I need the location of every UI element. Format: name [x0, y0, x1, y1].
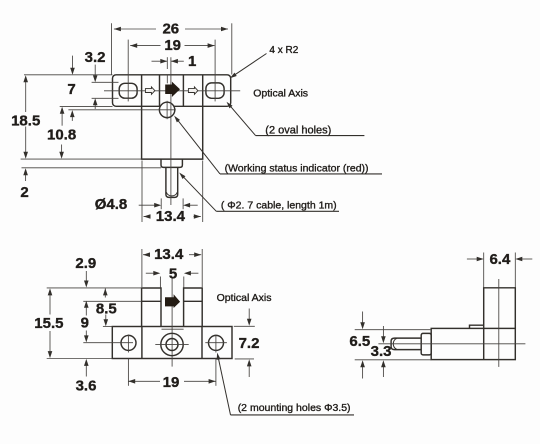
front view: left open light arrow — [145, 87, 155, 95]
bottom view: optical axis line across right prong — [184, 300, 203, 302]
leader line for cable label to cable — [181, 174, 217, 211]
side view: cable bushing — [421, 333, 431, 355]
dimension 6.5 bottom reference line (body bottom extended) — [355, 359, 432, 361]
front view: slot centerline tick above bar — [166, 57, 168, 69]
svg-text:3.2: 3.2 — [85, 49, 106, 66]
dimension 19 line left segment — [130, 45, 160, 47]
dimension 8.5 up arrow to prong top line — [104, 288, 106, 297]
dimension 19 line right segment — [185, 45, 215, 47]
svg-text:7.2: 7.2 — [239, 335, 260, 352]
svg-text:1: 1 — [188, 53, 196, 70]
dimension 10.8 down arrow to body bottom — [61, 145, 63, 154]
dimension 19 right arrowhead — [208, 43, 215, 48]
bottom view: plate internal divider left — [141, 327, 143, 359]
svg-text:(2 mounting holes Φ3.5): (2 mounting holes Φ3.5) — [238, 402, 351, 414]
dimension 19 left extension line — [127, 359, 129, 386]
svg-text:10.8: 10.8 — [47, 126, 76, 143]
front view: cable with rounded end — [166, 167, 178, 197]
dimension 13.4 (bottom) line right segment — [189, 254, 201, 256]
dimension 19 line left segment — [128, 380, 160, 382]
dimension 13.4 left arrowhead — [144, 214, 151, 219]
bottom view: base plate outline — [112, 327, 232, 359]
dimension 1 left line with inward arrow — [152, 60, 168, 62]
underline for working status indicator — [220, 173, 382, 175]
svg-text:6.5: 6.5 — [349, 333, 370, 350]
dimension 3.2/7 arrow to oval top — [94, 65, 96, 77]
svg-text:13.4: 13.4 — [154, 246, 184, 263]
bottom view: black optical axis arrow — [165, 294, 180, 308]
svg-text:3.6: 3.6 — [76, 378, 97, 395]
dimension 13.4 (bottom) left arrowhead — [143, 252, 150, 257]
side view: tower left edge through body — [483, 328, 485, 359]
bottom view: right hole vertical crosshair — [215, 335, 217, 353]
svg-text:26: 26 — [162, 21, 179, 38]
dimension 13.4 right arrowhead — [194, 214, 201, 219]
front view: slot centerline segment inside bar — [166, 75, 168, 84]
underline for cable label — [216, 210, 339, 212]
leader line for mounting holes label to right hole — [218, 357, 231, 415]
dimension 2.9 down arrow to prong top line — [85, 271, 87, 283]
dimension 13.4 line right segment — [194, 216, 201, 218]
dimension 3.3 up arrow to body bottom — [382, 366, 384, 377]
dimension 13.4 right extension line — [202, 161, 204, 223]
dimension Ø4.8 left line with arrowhead — [139, 204, 156, 206]
dimension 6.4 left line with inward arrow — [467, 258, 478, 260]
dimension 7.2 bottom tick line at plate bottom level — [235, 358, 254, 360]
bottom view: center boss outer circle — [161, 333, 183, 355]
dimension 6.4 left extension line — [483, 253, 485, 288]
svg-text:Optical Axis: Optical Axis — [217, 292, 272, 304]
dimension 6.5 up arrow to body bottom — [362, 366, 364, 379]
front view: body vertical centerline — [170, 57, 172, 205]
dimension 15.5 line upper segment with up arrow — [49, 294, 51, 315]
svg-text:(Working status indicator (red: (Working status indicator (red)) — [225, 163, 369, 175]
dimension 7.2 up arrow to plate bottom — [248, 365, 250, 378]
optical axis down arrow to plate top (7.2 upper) — [248, 309, 250, 321]
leader line for working status indicator to circle — [176, 118, 220, 174]
underline for mounting holes label — [231, 414, 355, 416]
dimension 1 right line with inward arrow — [171, 60, 184, 62]
dimension 19 left arrowhead — [130, 43, 137, 48]
svg-text:5: 5 — [169, 266, 177, 283]
dimension 2 up arrow — [25, 174, 27, 182]
svg-text:9: 9 — [81, 315, 89, 332]
bottom view: plate internal divider right — [201, 327, 203, 359]
bottom view: center boss inner circle — [166, 339, 178, 351]
side view: indicator notch on body top — [470, 325, 484, 328]
dimension Ø4.8 right line with arrowhead — [189, 204, 198, 206]
dimension Ø4.8 right extension line — [182, 198, 184, 209]
svg-text:18.5: 18.5 — [11, 113, 40, 130]
front view: right oval vertical centerline / 19-dim extension — [214, 40, 216, 102]
dimension 13.4 (bottom) right arrowhead — [194, 252, 201, 257]
bottom view: left mounting hole — [121, 335, 136, 350]
svg-text:2: 2 — [20, 184, 28, 201]
dimension 9 up arrow to optical axis line — [85, 306, 87, 316]
dimension 19 (bottom) left arrowhead — [128, 379, 135, 384]
side view: horizontal body outline — [431, 328, 515, 359]
dimension 10.8 up arrow to ear bottom line — [61, 112, 63, 126]
dimension 7 oval bottom extension line — [92, 97, 119, 99]
front view: indicator center horizontal line / 10.8-dim reference — [68, 109, 175, 111]
front view: center body outline below bar — [142, 106, 203, 159]
front view: slot right wall line — [182, 75, 184, 107]
dimension 2 step bottom reference line — [22, 167, 162, 169]
dimension 26 right extension line — [231, 23, 233, 74]
bottom view: right hole horizontal crosshair — [205, 342, 227, 344]
front view: left oval vertical centerline / 19-dim extension — [127, 40, 129, 102]
dimension 7 up arrow at oval bottom — [94, 104, 96, 109]
leader line for (2 oval holes) to right oval — [228, 103, 256, 135]
svg-text:( Φ2. 7 cable, length 1m): ( Φ2. 7 cable, length 1m) — [221, 200, 337, 212]
dimension 26 left extension line — [111, 23, 113, 74]
svg-text:13.4: 13.4 — [156, 208, 186, 225]
svg-text:2.9: 2.9 — [75, 255, 96, 272]
dimension 7.2 top tick line at plate top level — [234, 325, 255, 327]
front view: cable end ellipse arc — [166, 192, 177, 196]
dimension 26 line right segment — [185, 28, 228, 30]
dimension 13.4 (bottom) right extension — [201, 249, 203, 287]
dimension 13.4 (bottom) left extension — [141, 249, 143, 287]
svg-text:3.3: 3.3 — [371, 343, 392, 360]
dimension 3.2 arrow to bar top — [72, 56, 74, 70]
dimension 5 right line with inward arrow — [190, 272, 198, 274]
front view: optical axis horizontal centerline — [104, 90, 240, 92]
bottom view: left prong outline — [142, 288, 161, 327]
dimension 18.5 line lower segment with down arrowhead — [25, 127, 27, 154]
side view: vertical tower outline — [484, 288, 516, 329]
dimension 5 right extension tick — [183, 277, 185, 288]
side view: cable with rounded end — [391, 338, 421, 350]
svg-text:6.4: 6.4 — [489, 251, 511, 268]
dimension 5 left line with inward arrow — [146, 272, 154, 274]
front view: left ear-body divider line — [141, 75, 143, 107]
dimension 15.5 bottom reference line (plate bottom extended) — [47, 358, 113, 360]
dimension 13.4 (bottom) line left segment — [143, 254, 148, 256]
bottom view: optical axis line across left prong — [142, 300, 161, 302]
svg-text:7: 7 — [67, 81, 75, 98]
dimension 7 oval top extension line — [92, 81, 119, 83]
dimension 8.5 plate top extension line — [103, 325, 112, 327]
dimension 6.4 right line with inward arrow — [522, 258, 533, 260]
front view: right oval mounting hole — [206, 83, 224, 98]
dimension 6.5 top reference line (body top extended) — [355, 329, 432, 331]
svg-text:15.5: 15.5 — [34, 315, 63, 332]
svg-text:4 x R2: 4 x R2 — [269, 45, 298, 56]
svg-text:19: 19 — [164, 37, 181, 54]
dimension 26 right arrowhead — [221, 27, 228, 32]
dimension 19 (bottom) right arrowhead — [209, 379, 216, 384]
svg-text:Ø4.8: Ø4.8 — [95, 196, 128, 213]
front view: right open light arrow — [188, 87, 198, 95]
dimension 10.8 up arrow to indicator line — [71, 116, 73, 121]
dimension 18.5 top reference line (bar top extended) — [24, 74, 113, 76]
dimension 15.5 top reference line (prong top extended) — [47, 287, 142, 289]
front view: ear bottom extension line — [60, 105, 113, 107]
dimension 5 left extension tick — [159, 277, 161, 288]
underline for (2 oval holes) — [256, 135, 365, 137]
dimension 9 down arrow to hole center line — [85, 331, 87, 338]
dimension 26 left arrowhead — [114, 27, 121, 32]
dimension 6.4 right extension line — [514, 253, 516, 288]
dimension 13.4 line left segment — [144, 216, 151, 218]
bottom view: left hole vertical crosshair — [127, 335, 129, 353]
front view: cable bushing step below body — [161, 159, 182, 167]
svg-text:(2 oval holes): (2 oval holes) — [265, 124, 331, 136]
front view: slot left wall line — [159, 75, 161, 107]
bottom view: right mounting hole — [209, 335, 224, 350]
front view: working status indicator circle — [159, 102, 174, 117]
dimension 3.6 up arrow to plate bottom — [85, 364, 87, 377]
front view: black optical axis arrow — [165, 82, 180, 97]
side view: tower vertical centerline — [498, 279, 500, 367]
dimension Ø4.8 left extension line — [160, 198, 162, 209]
bottom view: vertical centerline through slot and boss — [171, 277, 173, 367]
side view: cable end ellipse arc — [393, 338, 397, 349]
side view: horizontal centerline through cable and body — [378, 343, 525, 345]
dimension 6.5 down arrow to body top — [362, 312, 364, 324]
svg-text:19: 19 — [163, 374, 180, 391]
dimension 8.5 down arrow to plate top — [105, 315, 107, 322]
front view: indicator circle vertical crosshair — [166, 101, 168, 119]
dimension 19 line right segment — [184, 380, 216, 382]
dimension 3.3 down arrow to cable centerline — [382, 326, 384, 338]
leader line for 4 x R2 to ear corner — [232, 54, 267, 77]
dimension 13.4 left extension line — [141, 161, 143, 223]
dimension 18.5 bottom reference line (body bottom extended) — [21, 158, 142, 160]
svg-text:Optical Axis: Optical Axis — [253, 87, 308, 99]
front view: left oval mounting hole — [119, 83, 137, 98]
front view: right ear-body divider line — [202, 75, 204, 107]
dimension 15.5 line lower segment with down arrow — [49, 331, 51, 354]
dimension 19 right extension line — [215, 359, 217, 386]
svg-text:8.5: 8.5 — [96, 300, 117, 317]
dimension 26 line left segment — [114, 28, 156, 30]
bottom view: right prong outline — [184, 288, 203, 327]
bottom view: left hole horizontal crosshair / 9-dim reference — [83, 342, 133, 344]
bottom view: slot floor recess line — [162, 328, 184, 330]
bottom view: optical axis extension to the left — [83, 300, 141, 302]
dimension 18.5 line upper segment with up arrowhead — [25, 81, 27, 113]
bottom view: boss horizontal crosshair — [155, 343, 188, 345]
front view: sensor top bar outline with mounting ears — [113, 75, 231, 107]
